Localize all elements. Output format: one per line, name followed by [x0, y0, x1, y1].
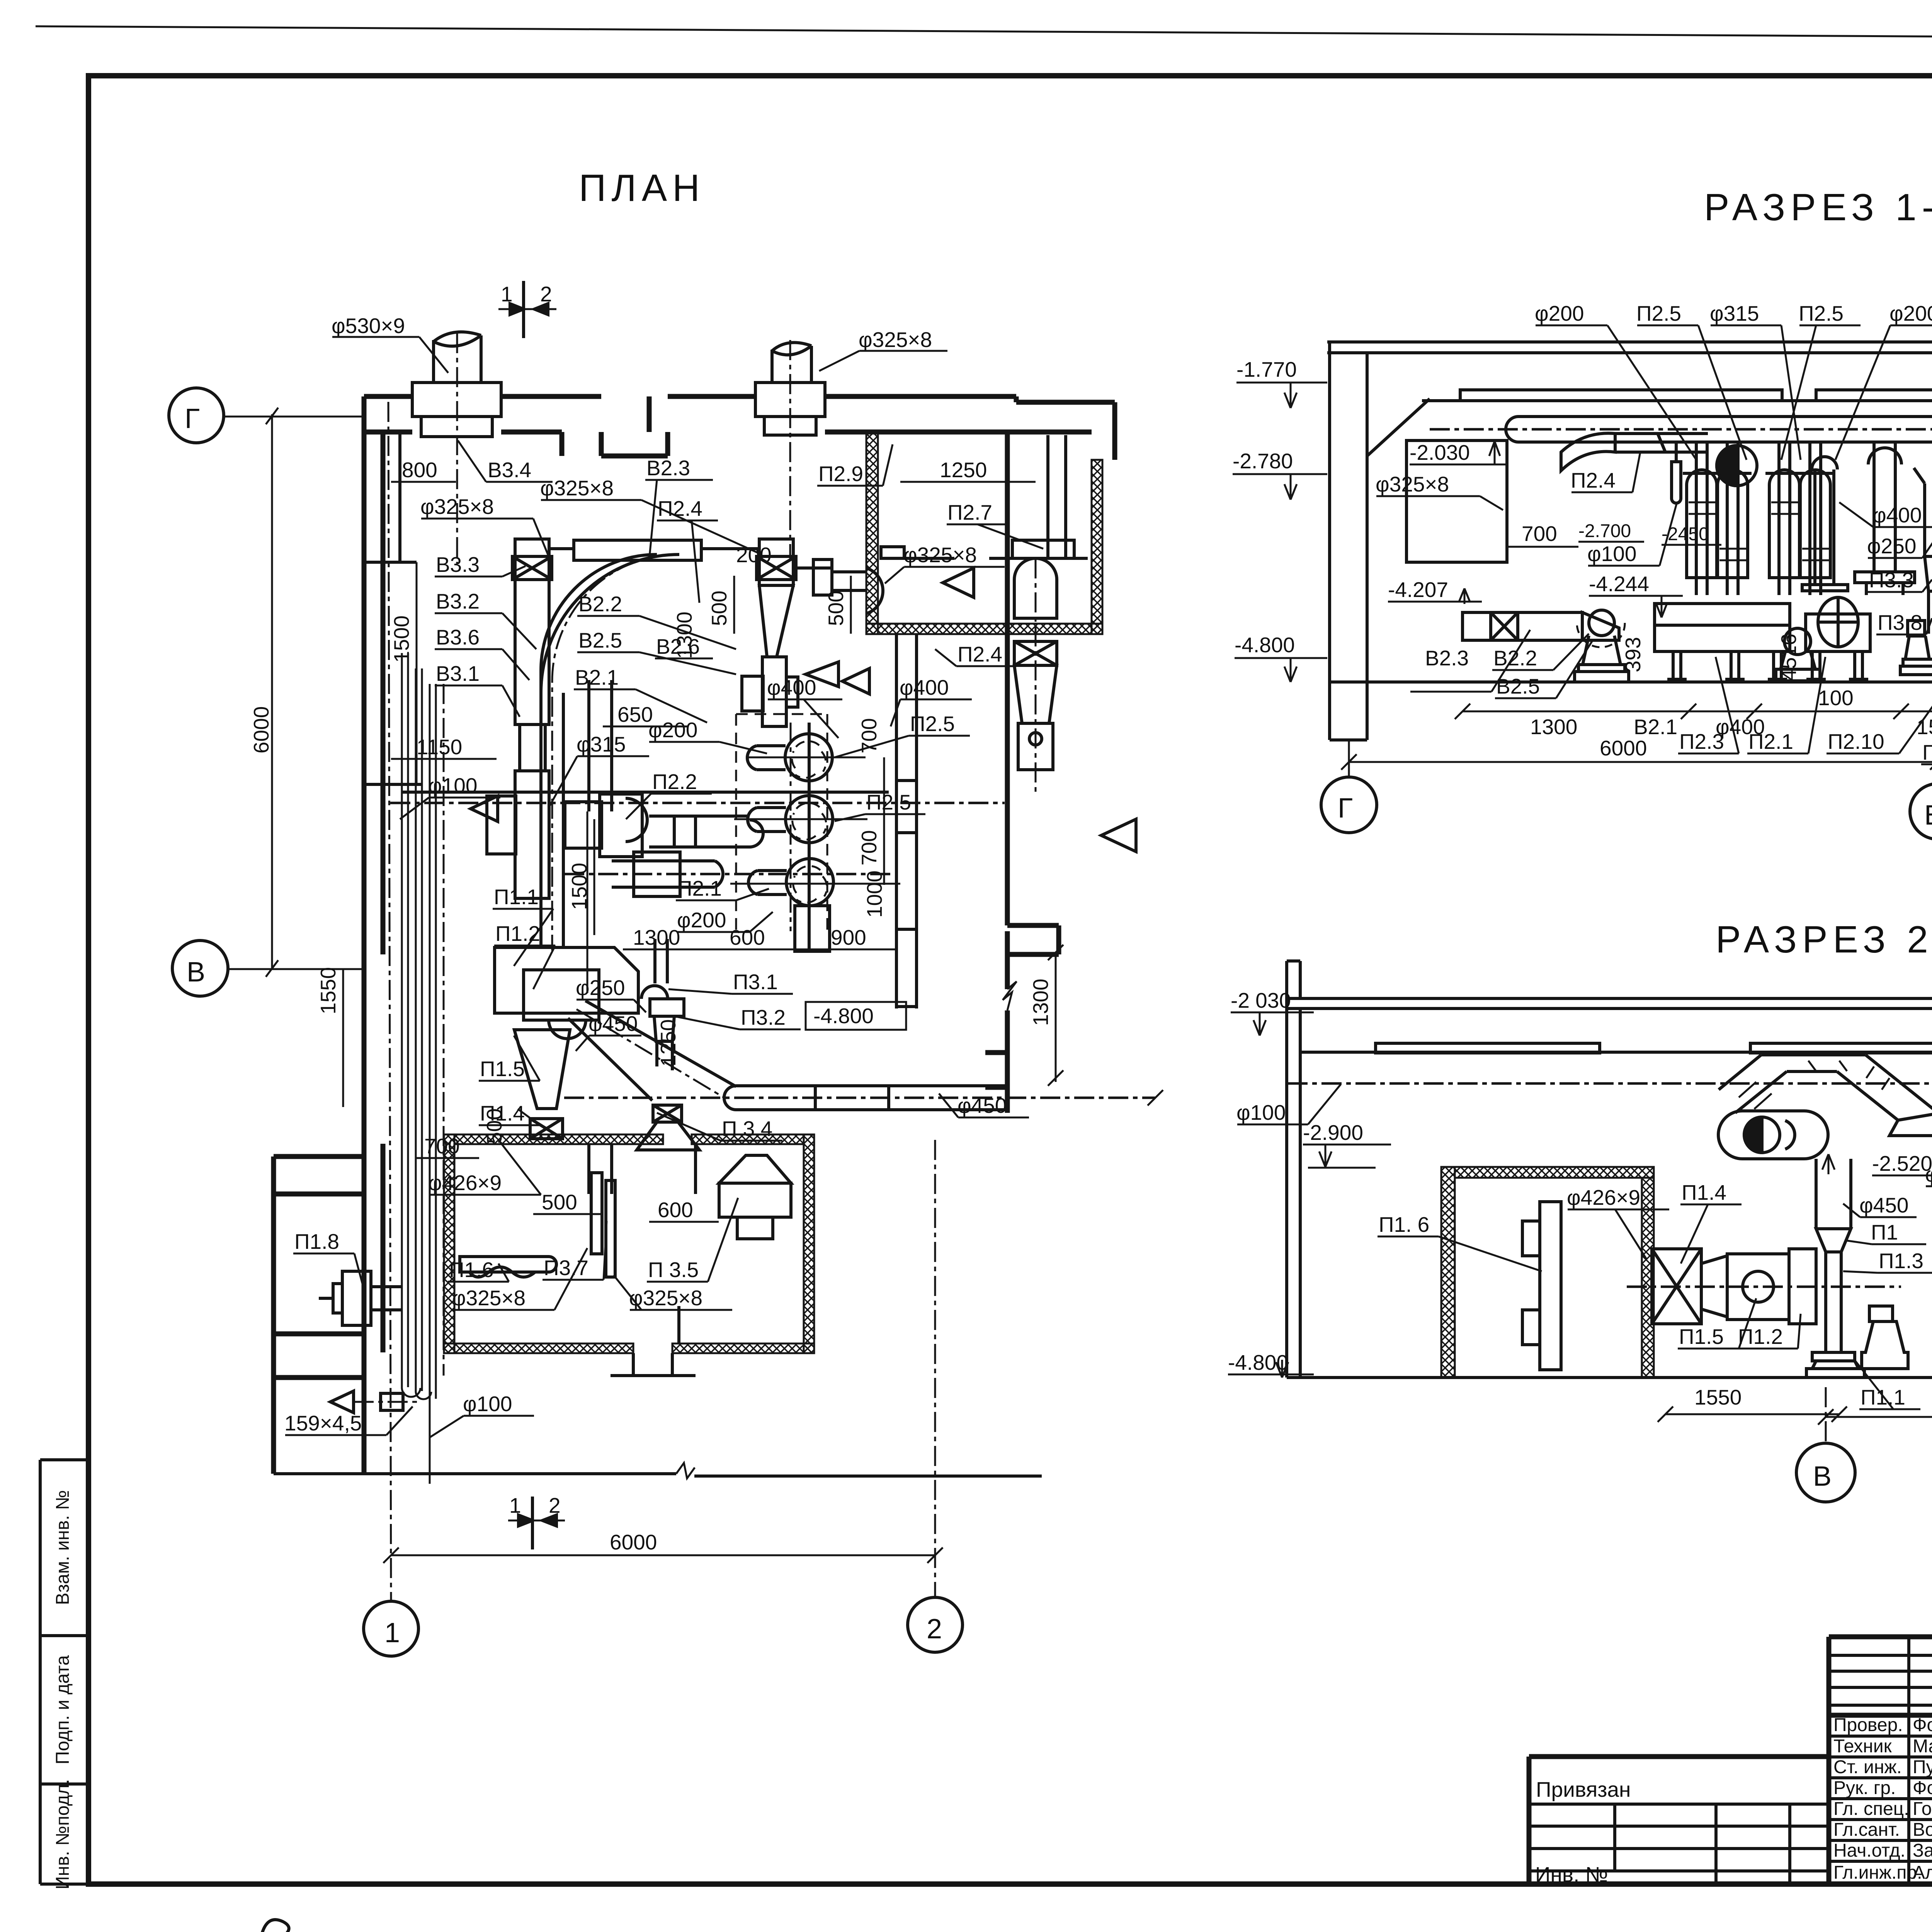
- svg-text:6000: 6000: [249, 706, 273, 753]
- top-right wall band: [1014, 396, 1019, 402]
- П1 unit block: [495, 947, 638, 1139]
- svg-text:П1.3: П1.3: [1879, 1249, 1923, 1273]
- svg-text:900: 900: [831, 925, 866, 949]
- left inner vertical wall x1035 upper: [364, 432, 421, 784]
- svg-text:В3.2: В3.2: [436, 589, 480, 613]
- tall box left (chamber): [1406, 440, 1507, 562]
- П1.1 fan bottom: [1806, 1306, 1908, 1378]
- svg-text:Заградский: Заградский: [1913, 1840, 1932, 1861]
- П3.3 riser right: [1914, 468, 1932, 634]
- vertical dim 6000 between Г and B: [271, 414, 273, 969]
- small arrow triangles flow marks: [471, 796, 498, 821]
- svg-text:φ200: φ200: [648, 718, 697, 742]
- svg-text:φ200: φ200: [1535, 301, 1584, 325]
- svg-text:φ325×8: φ325×8: [420, 495, 494, 519]
- left annex outline: [274, 1156, 364, 1474]
- svg-text:1150: 1150: [417, 735, 462, 759]
- exit arrow 159x4.5: [330, 1391, 421, 1413]
- svg-text:2: 2: [927, 1614, 942, 1645]
- П1.5 П1.2 horizontal unit: [1652, 1249, 1816, 1324]
- duct elbow to П2.9 room: [796, 560, 883, 614]
- svg-text:Техник: Техник: [1833, 1736, 1892, 1757]
- section mark 1-2 top: [498, 281, 556, 338]
- svg-text:Гл.сант.: Гл.сант.: [1833, 1820, 1900, 1840]
- duct B2 riser: [742, 539, 838, 726]
- svg-text:В2.5: В2.5: [578, 628, 622, 652]
- vertical subdividers: [1907, 1637, 1910, 1884]
- svg-text:700: 700: [1522, 522, 1557, 546]
- svg-text:-2.780: -2.780: [1233, 449, 1293, 473]
- room door opening lines: [611, 1353, 696, 1376]
- П2.10 riser and table: [1802, 457, 1858, 647]
- svg-text:Гл. спец.: Гл. спец.: [1833, 1799, 1909, 1819]
- svg-text:П1.2: П1.2: [495, 922, 540, 946]
- svg-text:П3.8: П3.8: [1878, 611, 1922, 634]
- left wall: [1287, 998, 1300, 1378]
- ceiling panels: [1460, 390, 1932, 401]
- AHU box 2: [1806, 614, 1870, 679]
- svg-text:В2.3: В2.3: [1425, 646, 1469, 670]
- pipes bundle vertical: [402, 653, 436, 1484]
- svg-text:В2.5: В2.5: [1496, 674, 1540, 698]
- svg-text:φ400: φ400: [767, 675, 816, 699]
- bundle bottom U-turn: [402, 1387, 431, 1399]
- П2.4 riser right: [1014, 558, 1057, 770]
- svg-text:Г: Г: [1338, 793, 1353, 824]
- svg-text:П3.1: П3.1: [733, 970, 778, 994]
- svg-text:Инв. №: Инв. №: [1535, 1862, 1608, 1886]
- left attachment column table: [40, 1460, 88, 1884]
- svg-text:500: 500: [707, 590, 731, 626]
- svg-text:-2 030: -2 030: [1231, 988, 1291, 1012]
- svg-text:П2.1: П2.1: [1748, 730, 1793, 753]
- fan П3.4 pedestal: [1900, 621, 1932, 675]
- svg-text:П1.4: П1.4: [1682, 1180, 1726, 1204]
- svg-text:ПЛАН: ПЛАН: [579, 167, 705, 209]
- svg-text:700: 700: [857, 718, 881, 753]
- svg-text:φ200: φ200: [677, 908, 726, 932]
- svg-text:φ426×9: φ426×9: [1567, 1185, 1640, 1209]
- svg-text:П1.5: П1.5: [480, 1057, 525, 1081]
- fan B2.1: [1575, 610, 1629, 682]
- B2.3 duct left: [1463, 612, 1619, 640]
- svg-text:Альшиц: Альшиц: [1913, 1862, 1932, 1883]
- left stack centerline: [456, 333, 458, 564]
- svg-text:Г: Г: [185, 403, 200, 434]
- svg-text:700: 700: [857, 830, 881, 866]
- svg-text:Нач.отд.: Нач.отд.: [1833, 1840, 1905, 1861]
- П1.6 tray: [460, 1257, 556, 1277]
- svg-text:П3.1: П3.1: [1922, 740, 1932, 764]
- svg-text:1300: 1300: [672, 612, 696, 659]
- dim 6000: [1349, 761, 1932, 763]
- svg-text:Провер.: Провер.: [1833, 1715, 1903, 1735]
- svg-text:100: 100: [1818, 686, 1854, 710]
- top area: left room inner partition: [562, 396, 649, 456]
- svg-text:П2.9: П2.9: [818, 462, 863, 486]
- main horizontal duct: [1506, 417, 1932, 442]
- room right wall: [1092, 460, 1102, 634]
- svg-text:Подп. и дата: Подп. и дата: [53, 1655, 73, 1764]
- svg-text:Фоменкова: Фоменкова: [1913, 1715, 1932, 1735]
- svg-text:φ250: φ250: [1867, 534, 1916, 558]
- dashed duct rect right: [736, 714, 827, 931]
- svg-text:В3.6: В3.6: [436, 625, 480, 649]
- oval fan П1 top: [1718, 1111, 1828, 1159]
- vertical duct ф450: [1816, 1159, 1851, 1352]
- svg-text:Мараева: Мараева: [1913, 1736, 1932, 1757]
- fan П2.1 center: [1776, 628, 1820, 681]
- centerline through unit: [1627, 1286, 1901, 1288]
- triangle right of plan: [1101, 819, 1136, 852]
- svg-text:Рук. гр.: Рук. гр.: [1833, 1778, 1896, 1798]
- svg-text:РАЗРЕЗ 1-1: РАЗРЕЗ 1-1: [1704, 186, 1932, 228]
- svg-text:φ315: φ315: [1925, 1162, 1932, 1186]
- left stack pipe ф530x9: [412, 332, 501, 437]
- fan П2.5 circle 3: [748, 859, 833, 951]
- dim row above 6000: 1300 etc: [1463, 711, 1932, 713]
- section mark 1-2 bottom: [508, 1493, 565, 1549]
- inner partition lower room: [679, 1144, 696, 1344]
- svg-text:-2.030: -2.030: [1410, 440, 1470, 464]
- svg-text:1250: 1250: [940, 458, 987, 482]
- plan left wall lower part: [362, 1156, 367, 1474]
- svg-text:1: 1: [509, 1493, 521, 1517]
- svg-text:Пугачева: Пугачева: [1913, 1757, 1932, 1777]
- svg-text:4516: 4516: [1777, 634, 1801, 681]
- П3.5 cone in room: [719, 1155, 791, 1239]
- triangle top right area: [943, 568, 974, 597]
- svg-text:В: В: [187, 957, 205, 988]
- slab: [1287, 961, 1932, 1009]
- svg-text:φ315: φ315: [577, 732, 626, 756]
- svg-text:500: 500: [542, 1190, 577, 1214]
- diagonal duct to П3.4: [568, 1001, 736, 1100]
- svg-text:В3.1: В3.1: [436, 662, 480, 685]
- ф100 pipe dash line: [1287, 1082, 1932, 1085]
- horizontal link duct top: [549, 540, 759, 560]
- axis B circle: [1825, 1387, 1827, 1442]
- ф100 hanging device: [1672, 442, 1681, 503]
- axis Г line: [224, 416, 364, 418]
- dim 6000 bottom: [391, 1554, 935, 1556]
- П2.9 duct drop in room: [1048, 435, 1066, 558]
- svg-text:П2.5: П2.5: [1799, 301, 1844, 325]
- П1.6 room walls hatched: [1441, 1167, 1455, 1378]
- svg-text:-2.700: -2.700: [1578, 521, 1631, 541]
- inner wall band right of fans: [896, 634, 917, 1009]
- left wall of plan: [362, 396, 367, 1156]
- svg-text:φ450: φ450: [1859, 1193, 1908, 1217]
- svg-text:Инв. №подл.: Инв. №подл.: [53, 1779, 73, 1889]
- svg-text:П2.4: П2.4: [957, 642, 1002, 666]
- suspended ceiling line: [1422, 399, 1932, 402]
- П2.1 duct lower: [612, 852, 723, 896]
- dash centerline П2.4: [1035, 558, 1037, 796]
- svg-text:φ400: φ400: [900, 675, 949, 699]
- svg-text:φ530×9: φ530×9: [332, 314, 405, 338]
- svg-text:φ325×8: φ325×8: [903, 543, 977, 567]
- room inner shelf П2.7: [881, 540, 1088, 558]
- fan П2.5 circle 2: [748, 796, 833, 843]
- svg-text:П1.5: П1.5: [1679, 1325, 1724, 1349]
- privyazan mini table: [1529, 1757, 1829, 1884]
- svg-text:1300: 1300: [1530, 715, 1577, 739]
- axis Г line and circle: [1348, 740, 1350, 777]
- svg-text:-1.770: -1.770: [1236, 357, 1297, 381]
- suspended ceiling panels: [1300, 1043, 1932, 1053]
- hatch ties on diagonal ducts: [1739, 1061, 1889, 1109]
- svg-text:φ325×8: φ325×8: [629, 1286, 702, 1310]
- signature scribble: [260, 1920, 350, 1932]
- svg-text:6000: 6000: [1600, 736, 1647, 760]
- axis 1 line: [388, 402, 391, 1601]
- right stack pipe ф325x8: [755, 343, 825, 435]
- svg-text:П2.4: П2.4: [1571, 468, 1616, 492]
- svg-text:800: 800: [402, 458, 437, 482]
- svg-text:-2.900: -2.900: [1303, 1121, 1363, 1145]
- svg-text:φ426×9: φ426×9: [428, 1171, 502, 1195]
- svg-text:Привязан: Привязан: [1536, 1777, 1631, 1801]
- svg-text:-4.800: -4.800: [813, 1004, 874, 1028]
- axis 2 line: [934, 1140, 936, 1597]
- svg-text:-4.800: -4.800: [1235, 633, 1295, 657]
- svg-text:В2.2: В2.2: [1493, 646, 1537, 670]
- svg-text:650: 650: [617, 702, 653, 726]
- top wall inner line: [364, 430, 412, 435]
- svg-text:П1.8: П1.8: [294, 1230, 339, 1253]
- small tick flanges on risers: [1689, 502, 1829, 560]
- svg-text:φ325×8: φ325×8: [452, 1286, 526, 1310]
- svg-text:П1.2: П1.2: [1738, 1325, 1783, 1349]
- room bottom wall: [866, 624, 1102, 634]
- AHU box 1: [1655, 604, 1790, 679]
- svg-text:В2.3: В2.3: [646, 456, 690, 480]
- duct bridge assembly: [1719, 1055, 1932, 1136]
- svg-text:Фоменкова: Фоменкова: [1913, 1778, 1932, 1798]
- svg-text:П2.4: П2.4: [658, 497, 702, 520]
- small rows top: [1829, 1654, 1932, 1657]
- outer border top line: [36, 26, 1932, 41]
- svg-text:1: 1: [384, 1617, 400, 1648]
- fan П2.5 circle 1: [747, 734, 832, 781]
- valve cross B2 bottom: [786, 677, 798, 707]
- -4.800 boxed level: [806, 1002, 906, 1030]
- svg-text:φ100: φ100: [1236, 1100, 1286, 1124]
- svg-text:6000: 6000: [610, 1530, 657, 1554]
- right wall lower partial: [985, 925, 1059, 1113]
- svg-text:1300: 1300: [1029, 979, 1053, 1026]
- svg-text:1: 1: [501, 282, 513, 306]
- svg-text:φ200: φ200: [1889, 301, 1932, 325]
- svg-text:-4.244: -4.244: [1589, 572, 1649, 596]
- room top edge: [866, 430, 1092, 435]
- svg-text:П2.5: П2.5: [1636, 301, 1681, 325]
- svg-text:Горленко: Горленко: [1913, 1799, 1932, 1819]
- svg-text:П1: П1: [1871, 1220, 1898, 1244]
- svg-text:1000: 1000: [862, 871, 886, 918]
- svg-text:φ100: φ100: [1587, 542, 1636, 566]
- svg-text:П2.3: П2.3: [1679, 730, 1724, 753]
- svg-text:П 3.5: П 3.5: [648, 1258, 699, 1282]
- svg-text:Волкова: Волкова: [1913, 1820, 1932, 1840]
- svg-text:Гл.инж.пр.: Гл.инж.пр.: [1833, 1862, 1922, 1883]
- svg-text:В: В: [1813, 1461, 1832, 1492]
- svg-text:159×4,5: 159×4,5: [284, 1411, 362, 1435]
- svg-text:П2.10: П2.10: [1828, 730, 1884, 753]
- svg-text:φ325×8: φ325×8: [1376, 472, 1449, 496]
- big curved duct: [541, 554, 679, 947]
- svg-text:φ325×8: φ325×8: [540, 476, 614, 500]
- floor line: [1330, 680, 1932, 684]
- П2.4 label + duct: [1561, 433, 1708, 471]
- svg-text:1300: 1300: [633, 925, 680, 949]
- svg-text:2: 2: [540, 282, 552, 306]
- svg-text:680: 680: [1930, 1263, 1932, 1298]
- plan bottom line: [274, 1463, 1042, 1478]
- svg-text:В: В: [1924, 800, 1932, 831]
- axis 2 circle: [908, 1597, 963, 1652]
- svg-text:Взам. инв. №: Взам. инв. №: [53, 1490, 73, 1605]
- П1.8 stub left: [319, 1271, 402, 1325]
- horizontal duct ф400 dash center: [390, 802, 1005, 804]
- name rows: [1829, 1735, 1932, 1738]
- svg-text:В2.1: В2.1: [1634, 715, 1677, 739]
- floor: [1287, 1376, 1932, 1379]
- left column: [1330, 342, 1367, 740]
- svg-text:-2.520: -2.520: [1872, 1151, 1932, 1175]
- svg-text:В3.4: В3.4: [488, 458, 531, 482]
- П2.2 unit: [565, 794, 763, 857]
- room left wall: [866, 432, 878, 634]
- curved duct dash centerline: [552, 554, 668, 951]
- top wall outer line: [364, 396, 1115, 1156]
- fan circles centerlines: [746, 757, 866, 759]
- П1.6 unit inside room: [1522, 1202, 1561, 1370]
- dash-dot pipe in bundle: [443, 684, 445, 1376]
- svg-text:П3.2: П3.2: [741, 1005, 786, 1029]
- svg-text:П2.7: П2.7: [947, 500, 992, 524]
- ф450 horizontal duct: [724, 1086, 1007, 1110]
- axis B circle: [172, 940, 228, 996]
- П3.1 П3.2 unit: [641, 939, 684, 1070]
- svg-text:П2.2: П2.2: [652, 770, 697, 794]
- svg-text:1550: 1550: [1694, 1385, 1742, 1409]
- svg-text:2: 2: [549, 1493, 561, 1517]
- П3.7 plates in room: [589, 1145, 615, 1277]
- П3.4 valve on diagonal: [637, 1105, 699, 1150]
- svg-text:В3.3: В3.3: [436, 553, 480, 577]
- svg-text:600: 600: [730, 925, 765, 949]
- haunch diagonal: [1367, 399, 1430, 456]
- slab top: [1327, 342, 1932, 353]
- svg-text:-4.207: -4.207: [1388, 578, 1448, 602]
- svg-text:П1. 6: П1. 6: [1379, 1213, 1429, 1236]
- lower room hatched walls: [444, 1134, 454, 1353]
- risers candelabra: [1683, 442, 1915, 595]
- svg-text:РАЗРЕЗ 2-2: РАЗРЕЗ 2-2: [1716, 918, 1932, 961]
- axis 1 circle: [364, 1601, 418, 1656]
- svg-text:φ325×8: φ325×8: [859, 328, 932, 352]
- svg-text:φ315: φ315: [1710, 301, 1759, 325]
- axis Г circle: [169, 388, 224, 443]
- title block outer: [1827, 1637, 1832, 1884]
- svg-text:φ400: φ400: [1872, 503, 1922, 527]
- svg-text:Ст. инж.: Ст. инж.: [1833, 1757, 1902, 1777]
- ф315 riser pair: [587, 680, 612, 993]
- svg-text:φ100: φ100: [463, 1392, 512, 1416]
- svg-text:1550: 1550: [316, 967, 340, 1014]
- svg-text:П3.3: П3.3: [1869, 568, 1914, 592]
- svg-text:600: 600: [658, 1198, 693, 1222]
- duct B3 riser top: [487, 539, 552, 898]
- svg-text:393: 393: [1621, 637, 1645, 672]
- svg-text:П1.6: П1.6: [449, 1258, 494, 1282]
- axis B line: [228, 968, 364, 970]
